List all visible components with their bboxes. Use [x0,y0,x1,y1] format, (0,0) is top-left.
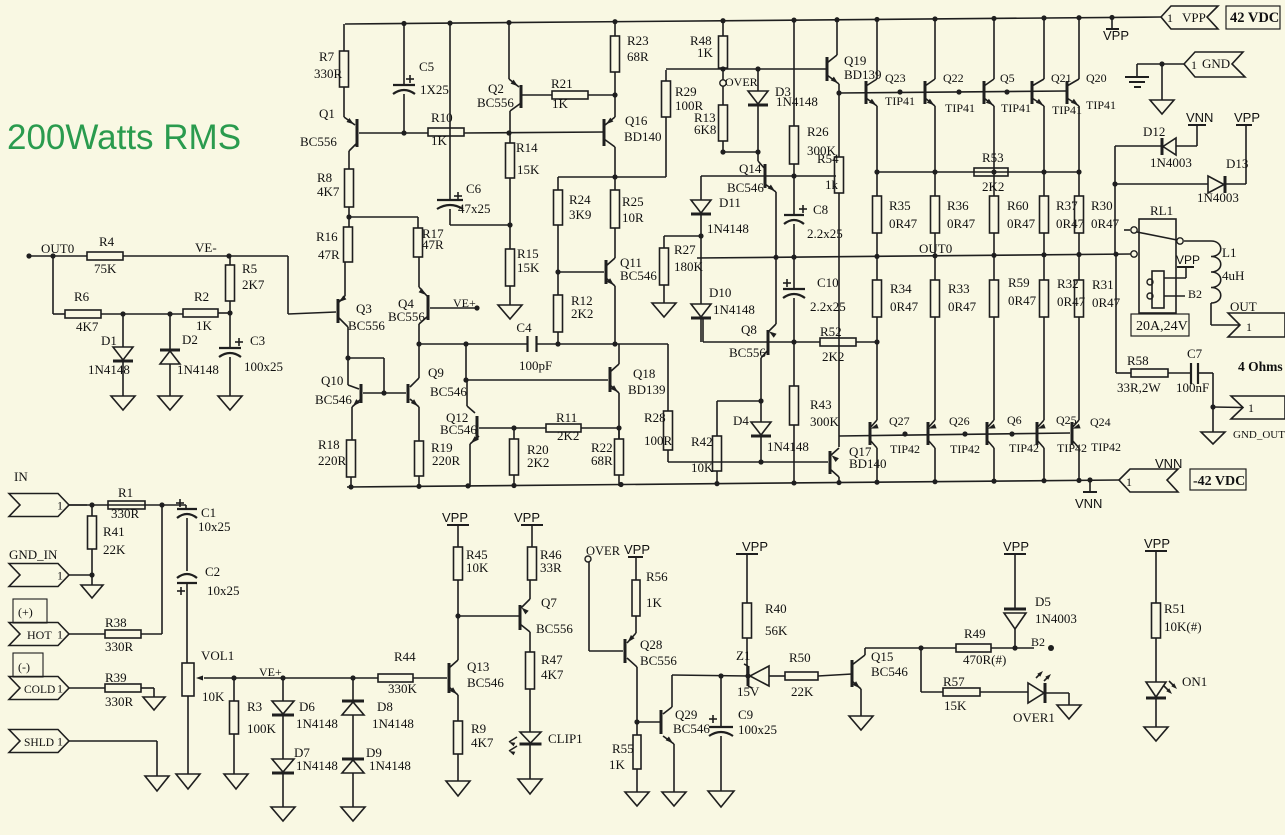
svg-text:BC556: BC556 [640,653,677,668]
svg-text:C10: C10 [817,275,839,290]
svg-text:D1: D1 [101,333,117,348]
svg-text:1N4148: 1N4148 [767,439,809,454]
svg-text:R34: R34 [890,281,912,296]
svg-text:Q26: Q26 [949,414,970,428]
svg-text:200Watts RMS: 200Watts RMS [7,118,241,157]
svg-text:BC556: BC556 [729,345,766,360]
svg-text:1: 1 [57,499,63,513]
svg-text:VPP: VPP [1103,28,1129,43]
svg-text:R2: R2 [194,289,209,304]
svg-text:R16: R16 [316,229,338,244]
svg-text:VE-: VE- [195,240,217,255]
svg-text:IN: IN [14,469,28,484]
svg-text:1K: 1K [646,595,663,610]
svg-text:TIP42: TIP42 [950,442,980,456]
svg-text:R38: R38 [105,615,127,630]
svg-text:1N4148: 1N4148 [296,716,338,731]
svg-text:300K: 300K [810,414,840,429]
svg-text:R14: R14 [516,140,538,155]
svg-text:Q5: Q5 [1000,71,1015,85]
svg-text:R35: R35 [889,198,911,213]
svg-text:(+): (+) [18,605,33,619]
svg-text:D13: D13 [1226,156,1248,171]
svg-text:100K: 100K [247,721,277,736]
svg-text:22K: 22K [791,684,814,699]
svg-text:C7: C7 [1187,346,1203,361]
svg-text:R24: R24 [569,192,591,207]
svg-text:VPP: VPP [742,539,768,554]
svg-text:2K2: 2K2 [822,349,844,364]
svg-text:TIP42: TIP42 [890,442,920,456]
svg-text:R5: R5 [242,261,257,276]
svg-text:68R: 68R [627,49,649,64]
svg-text:100nF: 100nF [1176,380,1209,395]
svg-text:1: 1 [57,628,63,642]
svg-text:1N4003: 1N4003 [1197,190,1239,205]
svg-text:2K2: 2K2 [527,455,549,470]
svg-text:68R: 68R [591,453,613,468]
svg-text:15K: 15K [517,260,540,275]
svg-text:R4: R4 [99,234,115,249]
svg-text:C5: C5 [419,59,434,74]
svg-text:R26: R26 [807,124,829,139]
svg-text:Q7: Q7 [541,595,557,610]
svg-text:CLIP1: CLIP1 [548,731,583,746]
svg-text:R41: R41 [103,524,125,539]
svg-text:R27: R27 [674,242,696,257]
svg-text:-42 VDC: -42 VDC [1193,474,1245,489]
svg-text:R3: R3 [247,699,262,714]
svg-text:Q24: Q24 [1090,415,1111,429]
svg-text:SHLD: SHLD [24,737,54,749]
svg-text:75K: 75K [94,261,117,276]
svg-text:BC556: BC556 [536,621,573,636]
svg-text:R6: R6 [74,289,90,304]
svg-text:OVER: OVER [725,75,758,89]
svg-text:R8: R8 [317,170,332,185]
svg-text:BC556: BC556 [477,95,514,110]
svg-text:VE+: VE+ [259,665,282,679]
svg-text:R60: R60 [1007,198,1029,213]
svg-text:D5: D5 [1035,594,1051,609]
svg-text:TIP41: TIP41 [1001,101,1031,115]
svg-text:1N4148: 1N4148 [707,221,749,236]
svg-text:VPP: VPP [442,510,468,525]
svg-text:TIP41: TIP41 [885,94,915,108]
svg-text:Q28: Q28 [640,637,662,652]
svg-text:6K8: 6K8 [694,122,716,137]
svg-text:330R: 330R [111,506,140,521]
svg-text:R47: R47 [541,652,563,667]
svg-text:33R: 33R [540,560,562,575]
svg-text:4K7: 4K7 [471,735,494,750]
svg-text:R58: R58 [1127,353,1149,368]
svg-text:VOL1: VOL1 [201,648,234,663]
svg-text:Q27: Q27 [889,414,910,428]
svg-text:22K: 22K [103,542,126,557]
svg-text:2K2: 2K2 [982,179,1004,194]
svg-text:Q10: Q10 [321,373,343,388]
svg-text:R56: R56 [646,569,668,584]
svg-text:ON1: ON1 [1182,674,1207,689]
svg-text:0R47: 0R47 [889,216,918,231]
svg-text:BC546: BC546 [440,422,477,437]
svg-text:2.2x25: 2.2x25 [807,226,843,241]
svg-text:Q25: Q25 [1056,413,1077,427]
svg-text:1N4148: 1N4148 [713,302,755,317]
svg-text:Q2: Q2 [488,81,504,96]
svg-text:Q20: Q20 [1086,71,1107,85]
svg-text:R1: R1 [118,485,133,500]
svg-text:C4: C4 [516,320,532,335]
svg-text:100R: 100R [644,433,673,448]
svg-text:R43: R43 [810,397,832,412]
svg-text:R21: R21 [551,76,573,91]
svg-text:VNN: VNN [1155,456,1182,471]
svg-text:1N4148: 1N4148 [296,758,338,773]
svg-text:D4: D4 [733,413,749,428]
svg-text:R36: R36 [947,198,969,213]
svg-text:R30: R30 [1091,198,1113,213]
svg-text:47R: 47R [422,237,444,252]
svg-text:0R47: 0R47 [947,216,976,231]
svg-text:1N4148: 1N4148 [369,758,411,773]
svg-text:220R: 220R [432,453,461,468]
svg-text:Q8: Q8 [741,322,757,337]
svg-text:R40: R40 [765,601,787,616]
svg-text:R59: R59 [1008,275,1030,290]
svg-text:3K9: 3K9 [569,207,591,222]
svg-text:220R: 220R [318,453,347,468]
svg-text:1X25: 1X25 [420,82,449,97]
svg-text:0R47: 0R47 [1057,294,1086,309]
svg-text:C2: C2 [205,564,220,579]
svg-text:4 Ohms: 4 Ohms [1238,359,1283,374]
svg-text:VPP: VPP [1176,253,1200,267]
svg-text:R53: R53 [982,150,1004,165]
svg-text:R42: R42 [691,434,713,449]
svg-text:R49: R49 [964,626,986,641]
svg-text:BC546: BC546 [673,721,710,736]
svg-text:1K: 1K [431,133,448,148]
svg-text:VNN: VNN [1075,496,1102,511]
svg-text:180K: 180K [674,259,704,274]
svg-text:R54: R54 [817,151,839,166]
svg-text:470R(#): 470R(#) [963,652,1006,667]
svg-text:1N4148: 1N4148 [372,716,414,731]
svg-text:R23: R23 [627,33,649,48]
svg-text:0R47: 0R47 [1056,216,1085,231]
svg-text:1: 1 [1246,320,1252,334]
svg-text:Q1: Q1 [319,106,335,121]
svg-text:R39: R39 [105,670,127,685]
svg-text:1: 1 [57,735,63,749]
svg-text:R57: R57 [943,674,965,689]
svg-text:56K: 56K [765,623,788,638]
svg-text:BD139: BD139 [628,382,666,397]
svg-text:R15: R15 [517,246,539,261]
svg-text:R51: R51 [1164,601,1186,616]
svg-text:B2: B2 [1031,635,1045,649]
svg-text:330R: 330R [314,66,343,81]
svg-text:330R: 330R [105,694,134,709]
svg-text:1: 1 [57,569,63,583]
svg-text:Z1: Z1 [736,648,750,663]
svg-text:Q14: Q14 [739,161,762,176]
svg-text:D11: D11 [719,195,741,210]
svg-text:2K2: 2K2 [571,306,593,321]
svg-text:1N4148: 1N4148 [177,362,219,377]
svg-text:D10: D10 [709,285,731,300]
svg-text:D12: D12 [1143,124,1165,139]
svg-text:10R: 10R [622,210,644,225]
svg-text:R31: R31 [1092,277,1114,292]
svg-text:33R,2W: 33R,2W [1117,380,1161,395]
svg-text:BC556: BC556 [348,318,385,333]
svg-text:2.2x25: 2.2x25 [810,299,846,314]
svg-text:100pF: 100pF [519,358,552,373]
svg-text:D8: D8 [377,699,393,714]
svg-text:10x25: 10x25 [198,519,231,534]
svg-text:0R47: 0R47 [1008,293,1037,308]
svg-text:Q18: Q18 [633,366,655,381]
svg-text:BC546: BC546 [467,675,504,690]
svg-text:VPP: VPP [1234,110,1260,125]
svg-text:C8: C8 [813,202,828,217]
svg-text:15K: 15K [944,698,967,713]
svg-text:B2: B2 [1188,287,1202,301]
svg-text:(-): (-) [18,660,30,674]
svg-text:C9: C9 [738,707,753,722]
svg-text:1k: 1k [825,177,839,192]
svg-text:1N4003: 1N4003 [1035,611,1077,626]
svg-text:BC546: BC546 [620,268,657,283]
svg-text:R32: R32 [1057,276,1079,291]
svg-text:330R: 330R [105,639,134,654]
svg-text:1K: 1K [196,318,213,333]
svg-text:4K7: 4K7 [541,667,564,682]
svg-text:C1: C1 [201,505,216,520]
svg-text:1: 1 [1191,58,1197,72]
svg-text:BC546: BC546 [315,392,352,407]
svg-text:0R47: 0R47 [948,299,977,314]
svg-text:R18: R18 [318,437,340,452]
svg-text:1: 1 [1126,475,1132,489]
svg-text:Q13: Q13 [467,659,489,674]
svg-text:2K7: 2K7 [242,277,265,292]
svg-text:Q23: Q23 [885,71,906,85]
svg-text:10K(#): 10K(#) [1164,619,1202,634]
svg-text:VPP: VPP [624,542,650,557]
svg-text:1K: 1K [609,757,626,772]
svg-text:47R: 47R [318,247,340,262]
svg-text:1N4148: 1N4148 [776,94,818,109]
svg-text:OVER1: OVER1 [1013,710,1055,725]
svg-text:1: 1 [1167,11,1173,25]
svg-text:Q16: Q16 [625,113,648,128]
svg-text:VPP: VPP [1182,10,1206,25]
svg-text:R11: R11 [556,410,577,425]
svg-text:1N4003: 1N4003 [1150,155,1192,170]
svg-text:0R47: 0R47 [1007,216,1036,231]
svg-text:Q29: Q29 [675,707,697,722]
svg-text:VNN: VNN [1186,110,1213,125]
svg-text:COLD: COLD [24,684,55,696]
svg-text:1K: 1K [552,96,569,111]
svg-text:1N4148: 1N4148 [88,362,130,377]
svg-text:Q22: Q22 [943,71,964,85]
svg-text:VE+: VE+ [453,296,476,310]
svg-text:RL1: RL1 [1150,203,1173,218]
svg-text:20A,24V: 20A,24V [1136,319,1188,334]
svg-text:0R47: 0R47 [890,299,919,314]
svg-text:4K7: 4K7 [317,184,340,199]
svg-text:TIP41: TIP41 [945,101,975,115]
svg-text:R7: R7 [319,49,335,64]
svg-text:Q21: Q21 [1051,71,1072,85]
svg-text:4uH: 4uH [1222,268,1244,283]
svg-text:VPP: VPP [1003,539,1029,554]
svg-text:Q3: Q3 [356,301,372,316]
svg-text:1: 1 [1248,401,1254,415]
svg-text:GND_IN: GND_IN [9,547,58,562]
svg-text:42 VDC: 42 VDC [1230,10,1279,26]
svg-text:VPP: VPP [1144,536,1170,551]
svg-text:Q19: Q19 [844,53,866,68]
svg-text:15V: 15V [737,684,760,699]
svg-text:TIP41: TIP41 [1086,98,1116,112]
svg-text:100x25: 100x25 [244,359,283,374]
svg-text:10K: 10K [466,560,489,575]
svg-text:R25: R25 [622,194,644,209]
svg-text:BC556: BC556 [388,309,425,324]
svg-text:1: 1 [57,682,63,696]
svg-text:D2: D2 [182,332,198,347]
svg-text:R28: R28 [644,410,666,425]
svg-text:BC556: BC556 [300,134,337,149]
svg-text:HOT: HOT [27,628,52,642]
svg-text:GND: GND [1202,56,1230,71]
svg-text:100x25: 100x25 [738,722,777,737]
svg-text:BC546: BC546 [871,664,908,679]
svg-text:R44: R44 [394,649,416,664]
svg-text:Q9: Q9 [428,365,444,380]
svg-text:R29: R29 [675,84,697,99]
svg-text:47x25: 47x25 [458,201,491,216]
svg-text:VPP: VPP [514,510,540,525]
svg-text:Q6: Q6 [1007,413,1022,427]
svg-text:TIP42: TIP42 [1009,441,1039,455]
svg-text:10K: 10K [202,689,225,704]
svg-text:R50: R50 [789,650,811,665]
svg-text:BC546: BC546 [727,180,764,195]
svg-text:R55: R55 [612,741,634,756]
svg-text:OUT0: OUT0 [41,241,74,256]
svg-text:R9: R9 [471,721,486,736]
svg-text:L1: L1 [1222,245,1236,260]
svg-text:D6: D6 [299,699,315,714]
svg-text:BD140: BD140 [849,456,887,471]
svg-text:10x25: 10x25 [207,583,240,598]
svg-text:C6: C6 [466,181,482,196]
svg-text:4K7: 4K7 [76,319,99,334]
svg-text:C3: C3 [250,333,265,348]
svg-text:Q15: Q15 [871,649,893,664]
svg-text:2K2: 2K2 [557,428,579,443]
svg-text:BC546: BC546 [430,384,467,399]
svg-text:15K: 15K [517,162,540,177]
svg-text:330K: 330K [388,681,418,696]
svg-text:OVER: OVER [586,544,621,558]
svg-text:OUT: OUT [1230,299,1257,314]
svg-text:GND_OUT: GND_OUT [1233,429,1285,441]
svg-text:1K: 1K [697,45,714,60]
svg-text:R33: R33 [948,281,970,296]
svg-text:BD140: BD140 [624,129,662,144]
svg-text:TIP42: TIP42 [1091,440,1121,454]
svg-text:R52: R52 [820,324,842,339]
